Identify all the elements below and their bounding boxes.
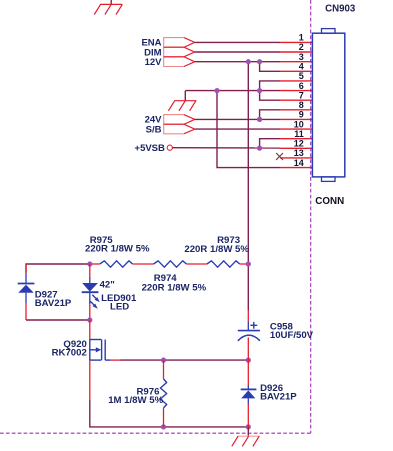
wire +5VSB to pin12 xyxy=(172,147,280,149)
wire gate maroon to vertA xyxy=(121,359,249,361)
junction dot gate/vertA xyxy=(246,358,251,363)
LED column red lead top xyxy=(89,264,91,277)
wire pin8 branch xyxy=(260,110,280,120)
svg-text:6: 6 xyxy=(299,81,304,91)
LED emission arrows xyxy=(92,295,97,300)
junction dot 24V/vertB xyxy=(257,117,262,122)
wire vertical B pin3 to pin4 xyxy=(260,62,280,72)
svg-text:4: 4 xyxy=(299,62,304,72)
junction dot R976 bottom xyxy=(161,424,166,429)
port flag ENA xyxy=(164,38,195,48)
junction dot ground bottom xyxy=(246,424,251,429)
junction dot pin3/vertA xyxy=(246,59,251,64)
junction dot 5VSB/vertB xyxy=(257,146,262,151)
svg-text:10: 10 xyxy=(294,119,304,129)
svg-text:42": 42" xyxy=(100,279,115,290)
connector CN903 body xyxy=(312,33,344,177)
pin numbers 1-14 xyxy=(294,33,304,168)
svg-text:CN903: CN903 xyxy=(325,4,356,15)
wire D927 to LED bottom link xyxy=(26,319,90,321)
junction dot gnd/vertB xyxy=(257,88,262,93)
connector top tab xyxy=(322,29,336,34)
svg-text:RK7002: RK7002 xyxy=(52,348,87,359)
svg-text:9: 9 xyxy=(299,110,304,120)
svg-text:2: 2 xyxy=(299,42,304,52)
dashed page border vertical xyxy=(310,0,312,433)
pin stubs red xyxy=(280,42,312,167)
resistor R973 xyxy=(207,261,240,267)
LED red lead bottom xyxy=(89,304,91,320)
wire 24V to pin9 xyxy=(195,118,280,120)
resistor R975 xyxy=(100,261,133,267)
svg-text:5: 5 xyxy=(299,71,304,81)
resistor R976 xyxy=(160,379,166,408)
diode D926 xyxy=(241,385,257,404)
svg-text:220R 1/8W 5%: 220R 1/8W 5% xyxy=(142,283,207,294)
ground G3 bottom xyxy=(232,436,260,446)
port flag 12V xyxy=(164,57,195,67)
flag shared edges highlight 2 xyxy=(164,115,195,134)
wire ground vertical to pin14 xyxy=(217,91,280,168)
svg-text:7: 7 xyxy=(299,90,304,100)
junction dot LED top xyxy=(87,261,92,266)
wire gate node down to D926 xyxy=(247,360,249,385)
dashed page border horizontal xyxy=(0,432,311,434)
wire top resistor row left segment maroon xyxy=(26,264,90,274)
junction dot LED bottom xyxy=(87,317,92,322)
wire cap bottom to gate node xyxy=(247,338,249,361)
wire vertical A pin3 down to resistor row xyxy=(247,62,249,310)
port flag 24V xyxy=(164,115,195,125)
svg-text:12V: 12V xyxy=(145,57,163,68)
svg-text:BAV21P: BAV21P xyxy=(35,298,72,309)
svg-text:BAV21P: BAV21P xyxy=(260,392,297,403)
port flag S/B xyxy=(164,124,195,134)
wire stem to ground G3 xyxy=(247,427,249,436)
svg-text:11: 11 xyxy=(294,129,304,139)
wire LED to Q920 drain xyxy=(89,320,91,340)
junction dot R976 top xyxy=(161,358,166,363)
junction dot vertA resistor row xyxy=(246,261,251,266)
port flag DIM xyxy=(164,47,195,57)
diode D927 branch: red lead top xyxy=(25,264,27,274)
connector bottom tab xyxy=(322,177,336,182)
svg-text:1: 1 xyxy=(299,33,304,43)
wire pin11 branch xyxy=(260,139,280,149)
svg-text:1M 1/8W 5%: 1M 1/8W 5% xyxy=(108,395,163,406)
transistor Q920 xyxy=(90,340,111,361)
no-connect X on pin13 xyxy=(276,153,283,160)
wire gate red segment xyxy=(111,359,121,361)
wire pin5 branch xyxy=(260,81,280,91)
svg-text:220R 1/8W 5%: 220R 1/8W 5% xyxy=(85,244,150,255)
wire Q920 source down red xyxy=(89,360,91,400)
junction dot pin3/vertB xyxy=(257,59,262,64)
svg-text:14: 14 xyxy=(294,158,304,168)
resistor R974 xyxy=(154,261,187,267)
wire ground net to pin6 xyxy=(185,90,280,92)
svg-text:3: 3 xyxy=(299,52,304,62)
svg-text:10UF/50V: 10UF/50V xyxy=(270,330,314,341)
capacitor C958 xyxy=(238,322,260,341)
svg-text:LED: LED xyxy=(110,302,129,313)
resistor R976 leads xyxy=(163,360,165,379)
wire pin3 from 12V xyxy=(195,61,280,63)
svg-text:8: 8 xyxy=(299,100,304,110)
wire red segments resistor row xyxy=(90,263,249,265)
svg-text:12: 12 xyxy=(294,139,304,149)
svg-text:13: 13 xyxy=(294,148,304,158)
svg-text:CONN: CONN xyxy=(315,196,344,207)
svg-text:S/B: S/B xyxy=(146,124,162,135)
capacitor C958 leads xyxy=(247,310,249,322)
junction dot gnd/vert217 xyxy=(214,88,219,93)
LED LED901 xyxy=(82,277,100,309)
diode D927 red lead bottom xyxy=(25,303,27,320)
terminal circle +5VSB xyxy=(167,145,172,150)
ground G1 top-left chassis ground xyxy=(94,0,122,15)
wire pin2 from DIM xyxy=(195,51,280,53)
wire Q920 source down maroon xyxy=(90,400,249,427)
svg-text:+5VSB: +5VSB xyxy=(135,143,166,154)
wire S/B to pin10 xyxy=(195,128,280,130)
wire pin7 branch xyxy=(260,91,280,101)
wire D926 to bottom xyxy=(247,404,249,427)
svg-text:220R 1/8W 5%: 220R 1/8W 5% xyxy=(184,244,249,255)
flag shared edges highlight xyxy=(164,38,195,67)
diode D927 xyxy=(18,274,35,303)
ground G2 near flags xyxy=(168,91,196,111)
wire pin1 from ENA xyxy=(195,41,280,43)
